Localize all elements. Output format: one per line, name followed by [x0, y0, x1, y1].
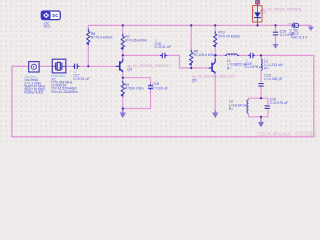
wire: R10 branch collector Q5	[214, 25, 216, 31]
wire: Q4 collector row to C15 and corner to Q5 base	[123, 54, 160, 56]
voltage source SRC2 V_DC	[289, 21, 308, 39]
wire: output chain L2 C16 down	[260, 55, 262, 58]
transistor Q4	[116, 59, 171, 72]
wire: R8 bottom to base node	[87, 45, 89, 67]
resistor R5	[190, 49, 218, 65]
svg-text:CSDN @weixin_47623987: CSDN @weixin_47623987	[257, 132, 317, 138]
svg-text:R=: R=	[264, 67, 269, 71]
svg-text:R=0.36 kOhm: R=0.36 kOhm	[125, 38, 147, 42]
OscTest probe OscTest1	[24, 62, 45, 95]
svg-text:C=0.01 uF: C=0.01 uF	[155, 45, 171, 49]
capacitor C18	[148, 82, 168, 91]
wire: tank top and bottom	[249, 98, 269, 105]
junction dots	[87, 24, 276, 118]
capacitor C17	[73, 64, 90, 81]
diode D1 (selected, red)	[252, 1, 301, 26]
wire: C10 branch	[275, 25, 277, 31]
ground (Q5 emitter)	[212, 111, 218, 119]
svg-text:DC: DC	[52, 13, 58, 18]
inductor L1	[225, 54, 248, 71]
ground (output tank)	[258, 117, 264, 128]
svg-text:C=0.075 uF: C=0.075 uF	[270, 101, 288, 105]
svg-text:Q5: Q5	[192, 78, 197, 82]
svg-text:R=: R=	[227, 66, 232, 70]
svg-text:C=4.262 pF: C=4.262 pF	[264, 77, 282, 81]
wire: R7 branch collector Q4	[122, 25, 124, 34]
capacitor C15	[155, 38, 171, 58]
svg-text:C18: C18	[152, 82, 158, 86]
wire: top supply rail	[88, 25, 310, 29]
resistor R10	[214, 30, 241, 47]
svg-text:R=500 Ohm: R=500 Ohm	[125, 86, 144, 90]
svg-text:C=0.01 uF: C=0.01 uF	[73, 77, 89, 81]
resistor R9	[121, 81, 143, 97]
svg-text:R=: R=	[229, 107, 234, 111]
DC simulation controller DC1	[41, 11, 60, 29]
wire: feedback loop left column and bottom rail and right column	[12, 55, 314, 136]
inductor L3	[229, 100, 249, 114]
svg-text:Points=1001: Points=1001	[24, 90, 43, 94]
wire: Q5 emitter down	[214, 72, 216, 112]
svg-text:R=125.6 kOhm: R=125.6 kOhm	[194, 53, 218, 57]
ground (V_DC)	[308, 25, 313, 30]
wire: L1 C19 output row	[215, 54, 225, 56]
resistor R8	[87, 29, 113, 45]
capacitor C16	[258, 74, 282, 87]
wire: R5 bias branch	[190, 25, 192, 50]
svg-text:R=75.0 kOhm: R=75.0 kOhm	[91, 35, 113, 39]
svg-text:ap_hb_29CH24_19921217: ap_hb_29CH24_19921217	[192, 75, 235, 79]
capacitor C10	[273, 29, 294, 37]
svg-text:C=1.578 pF: C=1.578 pF	[245, 65, 263, 69]
svg-text:R=0.76 kOhm: R=0.76 kOhm	[218, 35, 240, 39]
svg-text:Rm=10.2626Ohm: Rm=10.2626Ohm	[51, 90, 78, 94]
svg-text:C=100 uF: C=100 uF	[152, 87, 167, 91]
svg-text:ap_hb_29CH24_19921217: ap_hb_29CH24_19921217	[127, 64, 170, 68]
svg-text:DC1: DC1	[44, 25, 51, 29]
crystal resonator X2	[51, 59, 78, 94]
ground (Q4 emitter network)	[120, 109, 126, 119]
svg-text:Q4: Q4	[127, 68, 132, 72]
svg-text:D1: D1	[262, 11, 266, 15]
wire: resonator to C17 to Q4 base	[39, 65, 52, 67]
resistor R7	[121, 34, 147, 50]
capacitor C19	[245, 53, 263, 69]
inductor L2	[261, 56, 283, 70]
capacitor C20	[265, 98, 289, 109]
wire: Q4 emitter network	[122, 72, 124, 82]
svg-text:ap_sm_HSTQA_19930825: ap_sm_HSTQA_19930825	[262, 7, 301, 11]
svg-text:Vdc=3.3 V: Vdc=3.3 V	[291, 36, 308, 40]
wire: VDC to ground stub	[298, 24, 311, 26]
ground (C10)	[273, 44, 279, 49]
transistor Q5	[192, 58, 235, 82]
